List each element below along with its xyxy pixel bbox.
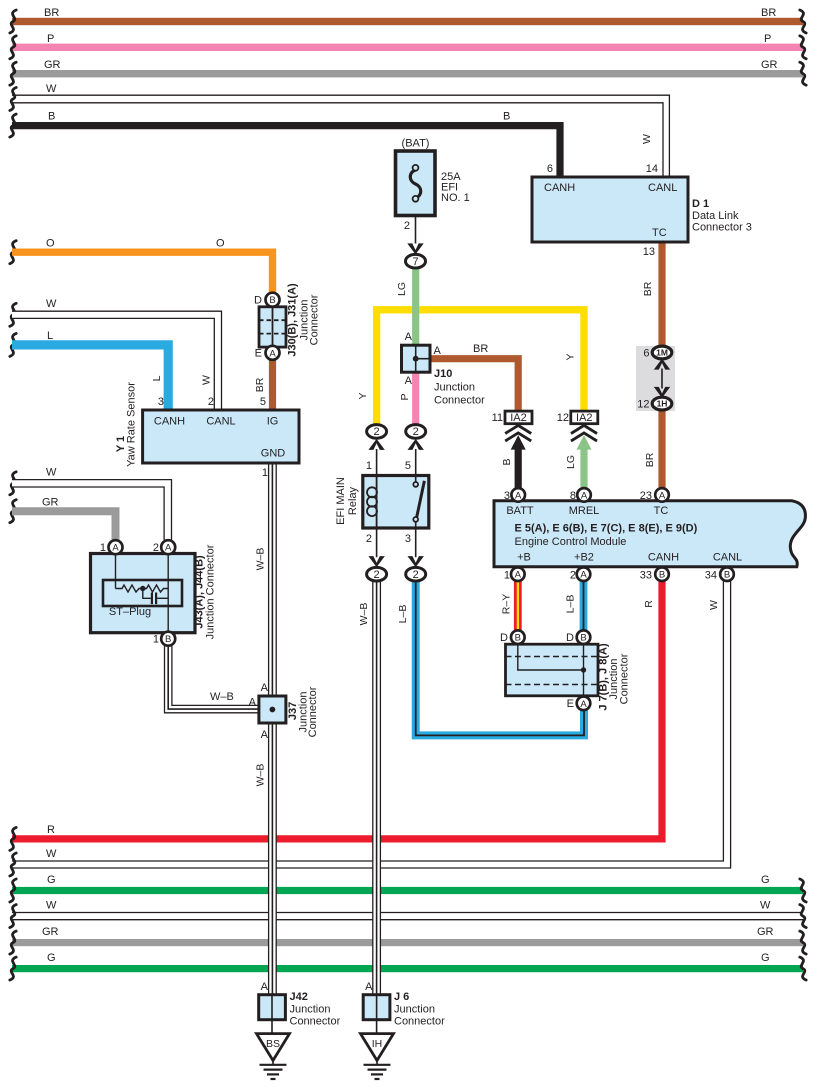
svg-text:6: 6 [547,163,553,175]
svg-text:B: B [659,570,665,581]
svg-text:LG: LG [565,455,577,469]
svg-text:Junction: Junction [394,1004,435,1016]
svg-text:W: W [46,467,57,479]
svg-text:BR: BR [44,7,59,19]
svg-text:GR: GR [42,497,59,509]
svg-text:R: R [643,600,655,608]
svg-text:E: E [567,698,574,710]
svg-text:2: 2 [570,570,576,582]
svg-text:CANL: CANL [648,182,677,194]
svg-text:B: B [580,633,586,644]
svg-text:+B2: +B2 [574,552,594,564]
svg-text:Relay: Relay [347,486,359,515]
svg-text:A: A [405,331,413,343]
svg-text:GR: GR [761,59,778,71]
svg-text:A: A [405,375,413,387]
svg-text:W: W [708,600,720,610]
svg-text:BR: BR [473,343,488,355]
svg-text:B: B [515,633,521,644]
svg-text:Connector: Connector [309,294,321,345]
svg-text:J 6: J 6 [394,991,409,1003]
svg-text:P: P [47,33,54,45]
svg-text:23: 23 [640,490,652,502]
svg-text:IA2: IA2 [510,412,527,424]
svg-text:ST–Plug: ST–Plug [109,606,151,618]
svg-text:P: P [764,33,771,45]
svg-text:2: 2 [208,396,214,408]
svg-text:G: G [47,874,56,886]
svg-text:13: 13 [643,246,655,258]
svg-text:IA2: IA2 [576,412,593,424]
svg-text:G: G [761,874,770,886]
svg-text:B: B [269,295,275,306]
svg-text:G: G [761,952,770,964]
svg-text:BR: BR [761,7,776,19]
svg-text:Connector 3: Connector 3 [692,222,752,234]
svg-text:B: B [501,458,513,465]
svg-text:E: E [255,348,262,360]
svg-text:O: O [216,238,225,250]
svg-text:B: B [165,634,171,645]
svg-text:IH: IH [372,1038,383,1050]
svg-text:NO. 1: NO. 1 [441,192,470,204]
svg-text:R–Y: R–Y [501,594,513,614]
svg-text:CANH: CANH [544,182,575,194]
svg-text:L–B: L–B [397,605,409,624]
svg-text:J30(B), J31(A): J30(B), J31(A) [287,283,299,357]
svg-text:A: A [580,699,587,710]
svg-text:2: 2 [153,542,159,554]
svg-text:TC: TC [654,505,669,517]
svg-text:Engine Control Module: Engine Control Module [515,536,627,548]
svg-text:2: 2 [404,220,410,232]
svg-text:A: A [261,729,269,741]
svg-text:1: 1 [504,570,510,582]
svg-text:MREL: MREL [569,505,600,517]
svg-text:BR: BR [642,281,654,296]
svg-text:14: 14 [646,163,658,175]
svg-text:Connector: Connector [290,1016,341,1028]
svg-text:D: D [566,632,574,644]
svg-text:W: W [46,298,57,310]
svg-text:11: 11 [492,412,503,424]
svg-text:2: 2 [413,569,419,581]
svg-text:1: 1 [153,634,159,646]
svg-text:A: A [580,570,587,581]
svg-text:8: 8 [570,490,576,502]
svg-text:Connector: Connector [619,653,631,704]
svg-text:6: 6 [643,348,649,360]
svg-text:+B: +B [517,552,531,564]
svg-text:Junction: Junction [290,1004,331,1016]
svg-text:Y: Y [565,353,577,360]
svg-text:BR: BR [644,452,656,467]
svg-text:GR: GR [757,926,774,938]
svg-text:W–B: W–B [210,691,234,703]
svg-text:34: 34 [705,570,717,582]
svg-text:A: A [515,490,522,501]
svg-text:D 1: D 1 [692,198,709,210]
svg-text:CANH: CANH [154,416,185,428]
svg-text:BATT: BATT [506,505,534,517]
svg-text:L–B: L–B [565,595,577,614]
svg-text:A: A [515,570,522,581]
svg-text:1H: 1H [657,399,668,409]
svg-text:A: A [659,490,666,501]
svg-text:3: 3 [504,490,510,502]
svg-text:Yaw Rate Sensor: Yaw Rate Sensor [126,382,138,467]
svg-text:5: 5 [260,396,266,408]
svg-text:W: W [641,134,653,144]
svg-text:2: 2 [413,426,419,438]
svg-text:CANL: CANL [713,552,742,564]
svg-text:3: 3 [405,533,411,545]
svg-text:A: A [261,682,269,694]
svg-text:O: O [46,238,55,250]
svg-text:L: L [47,330,53,342]
svg-text:W–B: W–B [255,548,267,571]
svg-text:CANL: CANL [206,416,235,428]
svg-text:2: 2 [374,569,380,581]
svg-text:D: D [500,632,508,644]
svg-text:A: A [261,981,269,993]
svg-text:1: 1 [100,542,106,554]
svg-text:A: A [365,981,373,993]
svg-text:7: 7 [412,256,418,268]
svg-text:Junction: Junction [434,382,475,394]
svg-text:A: A [434,345,442,357]
svg-text:A: A [249,697,257,709]
svg-text:R: R [47,824,55,836]
svg-text:1: 1 [366,460,372,472]
svg-text:E 5(A), E 6(B), E 7(C), E 8(E): E 5(A), E 6(B), E 7(C), E 8(E), E 9(D) [515,523,698,535]
svg-text:B: B [724,570,730,581]
svg-text:33: 33 [640,570,652,582]
svg-text:GR: GR [42,926,59,938]
svg-text:J42: J42 [290,991,308,1003]
svg-text:L: L [151,375,163,381]
svg-text:GR: GR [44,59,61,71]
svg-text:TC: TC [652,227,667,239]
svg-text:A: A [165,543,172,554]
svg-text:W: W [46,900,57,912]
svg-text:W–B: W–B [255,764,267,787]
svg-text:Connector: Connector [394,1016,445,1028]
svg-text:W: W [46,83,57,95]
svg-text:1M: 1M [656,348,668,358]
svg-text:B: B [48,111,55,123]
svg-text:W: W [46,848,57,860]
svg-text:W: W [760,900,771,912]
svg-text:2: 2 [366,533,372,545]
svg-text:12: 12 [637,399,649,411]
svg-text:W: W [201,375,213,385]
svg-text:1: 1 [262,467,268,479]
svg-text:A: A [581,490,588,501]
svg-text:Data Link: Data Link [692,210,739,222]
svg-text:BR: BR [254,377,266,392]
svg-text:Y: Y [357,392,369,399]
svg-text:5: 5 [405,460,411,472]
svg-text:J10: J10 [434,368,452,380]
svg-text:G: G [47,952,56,964]
svg-text:A: A [112,543,119,554]
svg-text:EFI MAIN: EFI MAIN [335,477,347,525]
svg-text:IG: IG [267,416,279,428]
svg-text:GND: GND [261,448,286,460]
svg-text:(BAT): (BAT) [402,138,430,150]
svg-text:Junction Connector: Junction Connector [205,544,217,639]
svg-text:W–B: W–B [358,603,370,626]
svg-text:BS: BS [266,1038,280,1050]
svg-text:CANH: CANH [648,552,679,564]
svg-text:B: B [503,111,510,123]
svg-text:2: 2 [374,426,380,438]
svg-text:P: P [399,393,411,400]
svg-text:D: D [254,295,262,307]
svg-text:3: 3 [158,396,164,408]
svg-text:LG: LG [396,282,408,296]
svg-text:Connector: Connector [434,395,485,407]
svg-text:Connector: Connector [307,686,319,737]
svg-text:A: A [269,348,276,359]
svg-text:12: 12 [557,412,569,424]
